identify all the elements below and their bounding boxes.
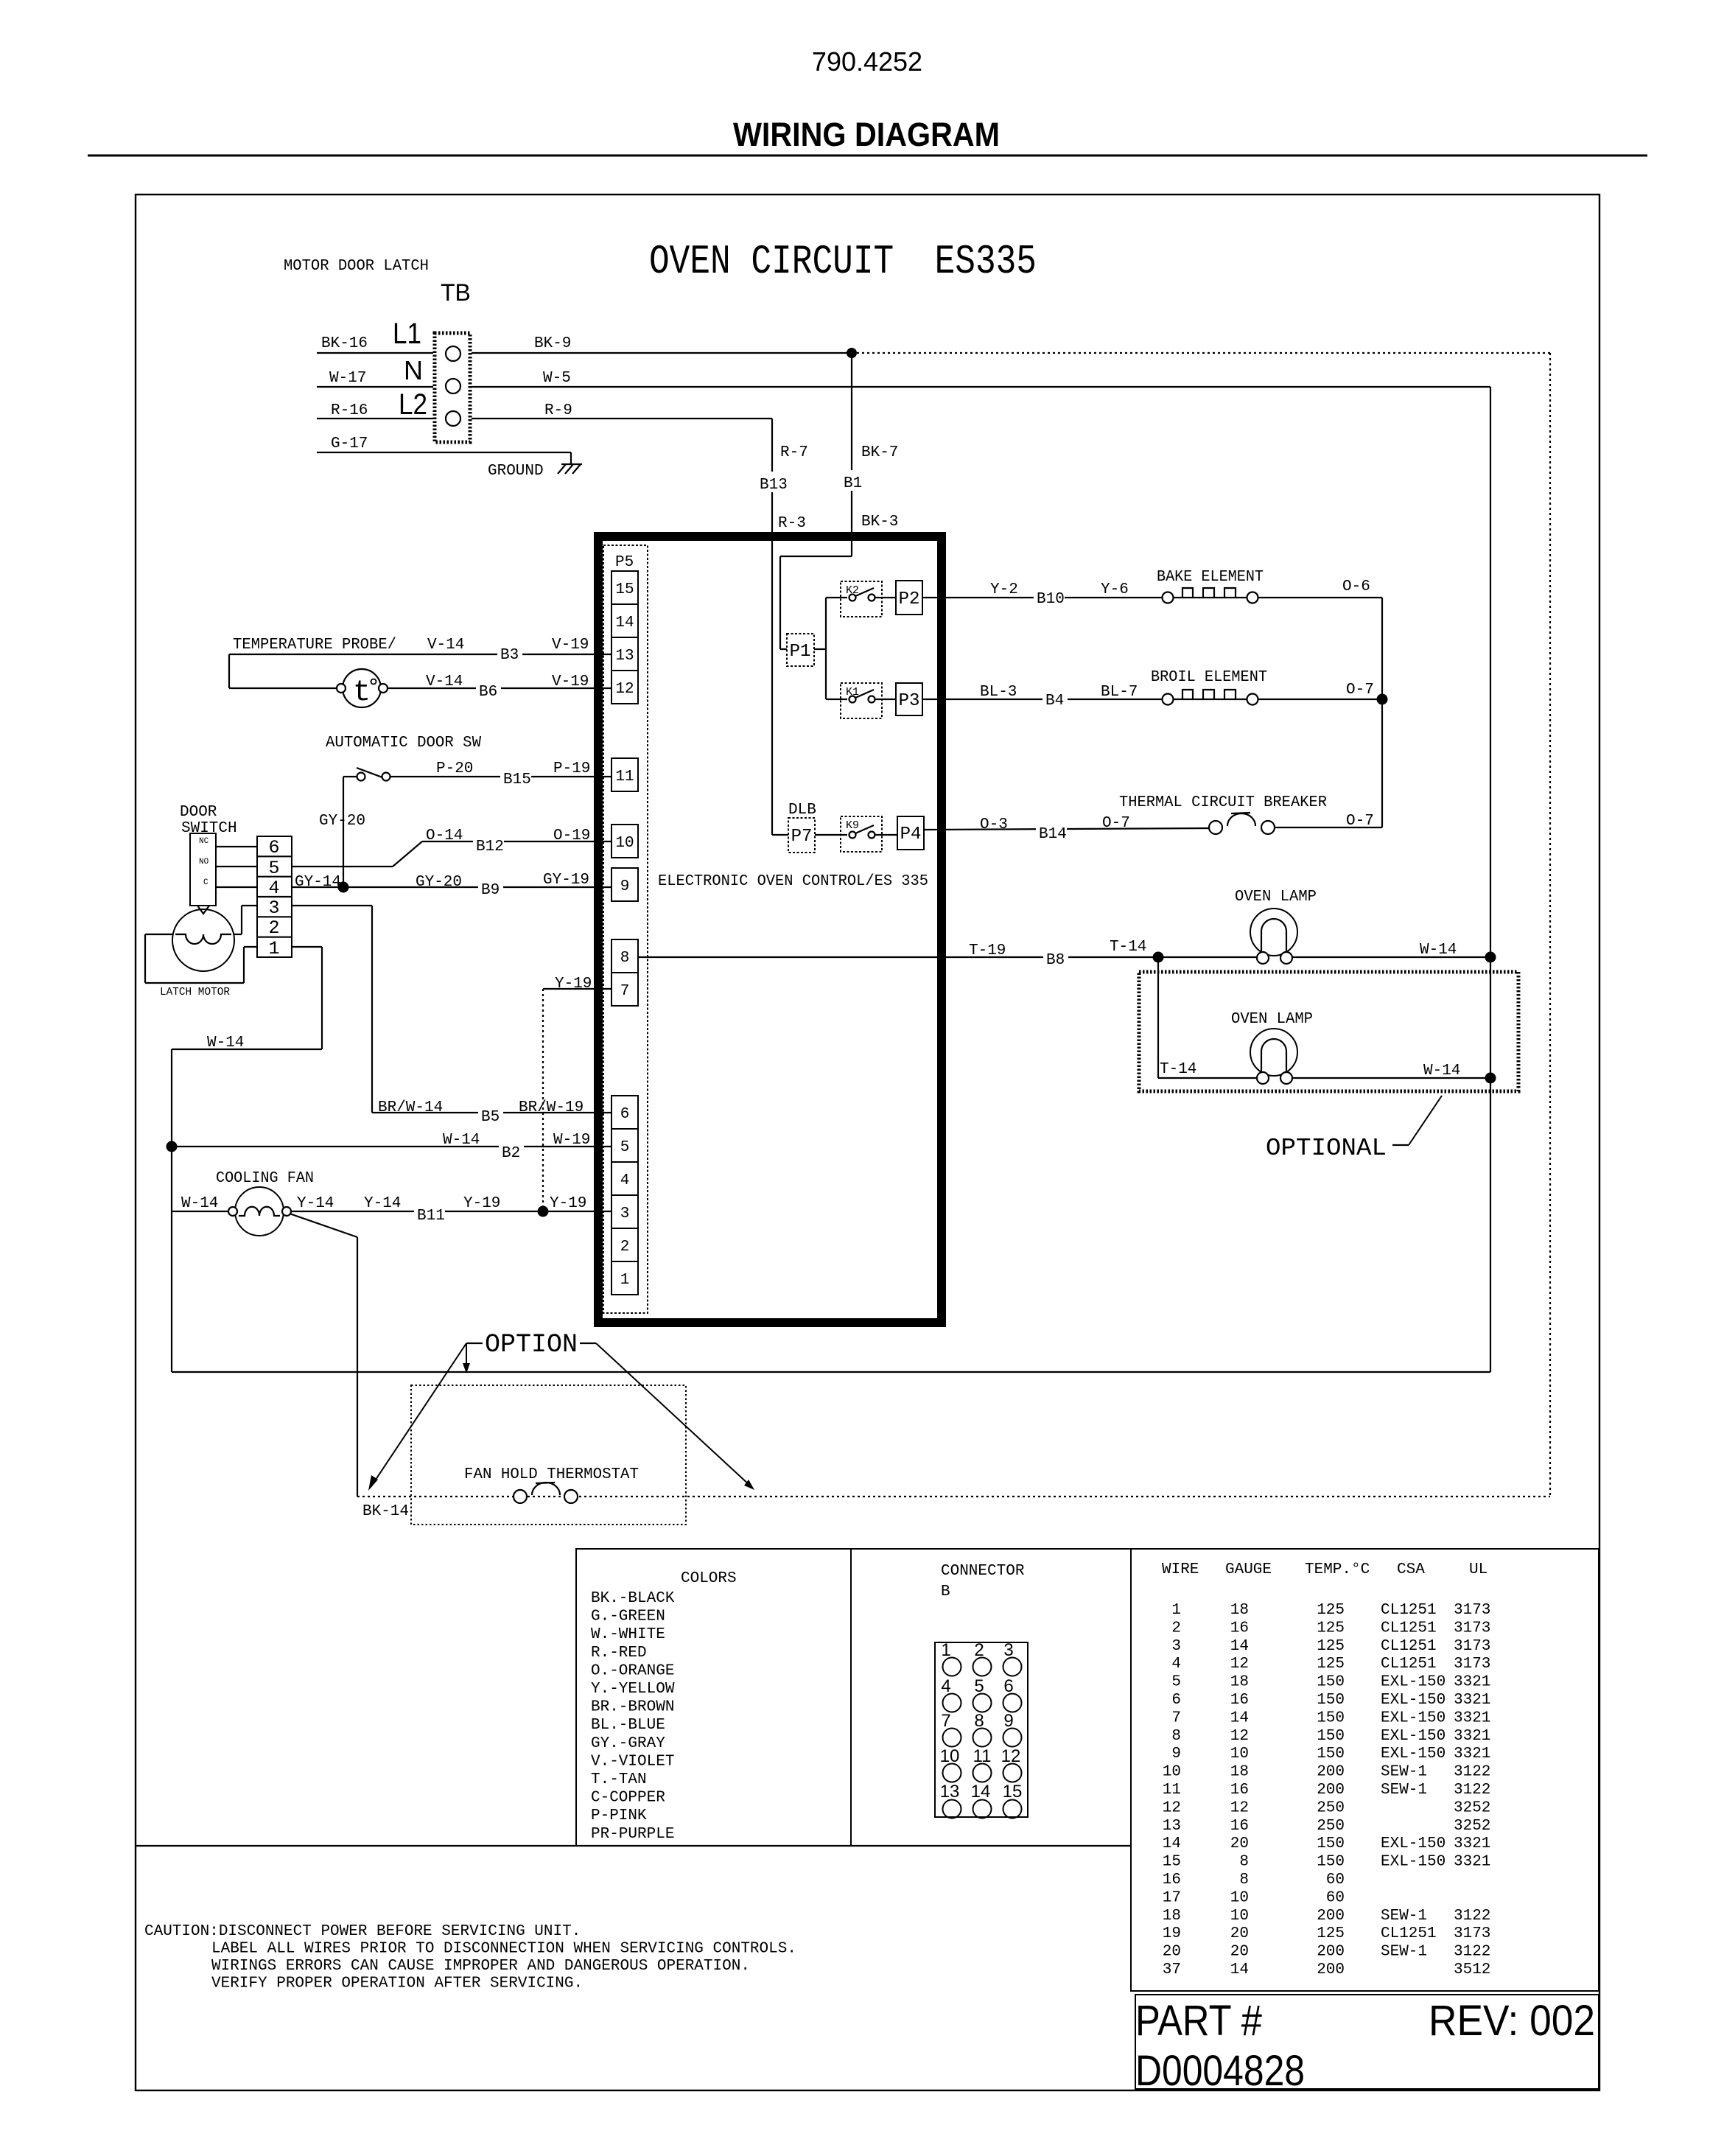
svg-text:CAUTION:DISCONNECT POWER BEFOR: CAUTION:DISCONNECT POWER BEFORE SERVICIN… (144, 1923, 581, 1940)
connector B pin block (935, 1640, 1028, 1819)
svg-text:20: 20 (1230, 1925, 1249, 1942)
svg-text:W-14: W-14 (181, 1195, 218, 1212)
svg-text:250: 250 (1317, 1818, 1345, 1835)
wire pin 8 T-19/B8/T-14 to oven lamp (638, 939, 1258, 969)
svg-text:3321: 3321 (1454, 1728, 1490, 1745)
wire BK dotted to right side (852, 353, 1550, 1497)
svg-text:V.-VIOLET: V.-VIOLET (591, 1753, 674, 1770)
svg-text:2: 2 (620, 1239, 630, 1256)
terminal block TB (435, 333, 470, 442)
svg-text:125: 125 (1317, 1925, 1345, 1942)
relay K9 (841, 816, 882, 852)
svg-text:14: 14 (1230, 1961, 1249, 1978)
label AUTOMATIC DOOR SW (326, 735, 481, 752)
svg-text:P7: P7 (791, 827, 813, 847)
svg-text:EXL-150: EXL-150 (1381, 1692, 1446, 1709)
svg-text:37: 37 (1163, 1961, 1181, 1978)
plug P7 (788, 818, 815, 853)
svg-text:CL1251: CL1251 (1381, 1602, 1437, 1619)
wire gauge table rows (1163, 1602, 1491, 1978)
svg-text:BK.-BLACK: BK.-BLACK (591, 1590, 675, 1607)
svg-text:B3: B3 (500, 647, 519, 664)
node W-14 junction (167, 1141, 178, 1152)
svg-text:Y-6: Y-6 (1101, 581, 1129, 598)
wire BK-9 (472, 335, 852, 353)
svg-text:BL.-BLUE: BL.-BLUE (591, 1717, 665, 1734)
svg-text:150: 150 (1317, 1709, 1345, 1726)
P5 pin 5 (612, 1129, 638, 1162)
svg-text:13: 13 (940, 1782, 960, 1802)
wire BK dashed through thermostat (357, 1496, 1550, 1497)
svg-text:125: 125 (1317, 1656, 1345, 1673)
svg-text:6: 6 (1171, 1692, 1181, 1709)
latch motor link triangle (197, 906, 209, 914)
plug P1 (787, 634, 814, 666)
svg-text:O-3: O-3 (980, 816, 1008, 833)
svg-text:R.-RED: R.-RED (591, 1645, 647, 1662)
svg-text:BK-7: BK-7 (861, 444, 898, 461)
svg-text:B15: B15 (503, 771, 531, 788)
svg-text:6: 6 (620, 1106, 630, 1123)
svg-text:G-17: G-17 (331, 435, 368, 452)
P5 pin 1 (612, 1261, 638, 1295)
svg-text:3321: 3321 (1454, 1835, 1490, 1852)
P5 pin 4 (612, 1162, 638, 1195)
svg-text:W-5: W-5 (543, 370, 571, 387)
svg-text:t: t (353, 676, 371, 710)
svg-text:9: 9 (620, 878, 630, 895)
ground symbol (488, 463, 582, 480)
svg-text:15: 15 (615, 581, 634, 598)
svg-text:12: 12 (1230, 1656, 1249, 1673)
P5 pin 11 (612, 758, 638, 791)
svg-text:7: 7 (1171, 1709, 1181, 1726)
node T-14 junction (1153, 952, 1164, 963)
svg-text:16: 16 (1230, 1782, 1249, 1799)
wire pin3 to BR/W-14/B5/BR/W-19 pin 6 of P5 (292, 906, 612, 1126)
svg-text:3321: 3321 (1454, 1709, 1490, 1726)
svg-text:B8: B8 (1046, 952, 1065, 969)
svg-text:4: 4 (1171, 1656, 1181, 1673)
svg-text:COLORS: COLORS (681, 1570, 737, 1587)
svg-text:P-20: P-20 (436, 760, 473, 777)
svg-text:P2: P2 (899, 589, 920, 609)
fan hold thermostat dotted box (411, 1385, 686, 1525)
svg-text:DLB: DLB (788, 802, 816, 819)
svg-text:B13: B13 (760, 477, 788, 494)
wire fan to BK-14 down (290, 1214, 409, 1520)
wire R-16 (317, 402, 433, 419)
svg-text:CL1251: CL1251 (1381, 1656, 1437, 1673)
wire K9 to P4 (875, 834, 897, 836)
svg-text:GY.-GRAY: GY.-GRAY (591, 1735, 665, 1752)
svg-text:1: 1 (1171, 1602, 1181, 1619)
svg-text:Y.-YELLOW: Y.-YELLOW (591, 1681, 675, 1698)
P5 pin 6 (612, 1096, 638, 1129)
wire pin1 W-14 down left side (172, 947, 322, 1372)
cooling fan motor (228, 1187, 291, 1236)
label N (404, 355, 423, 385)
svg-text:OPTION: OPTION (485, 1330, 578, 1359)
svg-text:K9: K9 (846, 819, 859, 832)
svg-text:THERMAL CIRCUIT BREAKER: THERMAL CIRCUIT BREAKER (1119, 794, 1327, 811)
svg-text:4: 4 (620, 1172, 630, 1189)
svg-text:L2: L2 (399, 388, 427, 421)
svg-text:W-14: W-14 (207, 1035, 244, 1051)
part number box (1135, 1995, 1599, 2095)
svg-text:20: 20 (1230, 1944, 1249, 1961)
svg-text:P3: P3 (899, 691, 920, 711)
colors legend box (576, 1549, 851, 1846)
svg-text:SEW-1: SEW-1 (1381, 1782, 1427, 1799)
svg-text:VERIFY PROPER OPERATION AFTER: VERIFY PROPER OPERATION AFTER SERVICING. (211, 1975, 583, 1992)
svg-text:200: 200 (1317, 1782, 1345, 1799)
svg-text:150: 150 (1317, 1692, 1345, 1709)
svg-text:3512: 3512 (1454, 1961, 1490, 1978)
svg-text:CL1251: CL1251 (1381, 1925, 1437, 1942)
svg-text:5: 5 (620, 1139, 630, 1156)
svg-text:Y-19: Y-19 (463, 1195, 500, 1212)
wire NO to pin 5 (216, 866, 257, 867)
svg-text:CSA: CSA (1397, 1561, 1425, 1578)
wire bake 0-6 to right bus (1258, 578, 1382, 699)
svg-text:OPTIONAL: OPTIONAL (1266, 1135, 1387, 1162)
latch motor (160, 909, 234, 998)
door switch connector block pins 6-1 (257, 836, 292, 959)
svg-text:O-7: O-7 (1346, 682, 1374, 699)
connector P5 dotted box (603, 545, 648, 1313)
svg-text:11: 11 (1163, 1782, 1181, 1799)
svg-text:3: 3 (268, 897, 279, 919)
svg-text:3173: 3173 (1454, 1638, 1490, 1655)
svg-text:3173: 3173 (1454, 1656, 1490, 1673)
wire W-14 to fan (172, 1195, 229, 1212)
wire BK-7 / BK-3 vertical into EOC to P1 (780, 353, 898, 649)
page header number (812, 46, 922, 77)
svg-text:8: 8 (1239, 1872, 1249, 1889)
oven lamp 2 (1250, 1029, 1297, 1084)
svg-text:3321: 3321 (1454, 1746, 1490, 1763)
svg-text:PART #: PART # (1135, 1997, 1262, 2045)
svg-text:150: 150 (1317, 1674, 1345, 1691)
wire pin4 GY-14/GY-20/B9/GY-19 to pin 9 (292, 872, 612, 899)
svg-text:790.4252: 790.4252 (812, 46, 922, 77)
P5 pin 8 (612, 939, 638, 973)
svg-text:FAN HOLD THERMOSTAT: FAN HOLD THERMOSTAT (464, 1466, 639, 1483)
svg-text:3: 3 (620, 1205, 630, 1222)
svg-text:O-6: O-6 (1342, 578, 1370, 595)
svg-text:10: 10 (1230, 1889, 1249, 1906)
svg-text:DOOR: DOOR (180, 804, 217, 821)
svg-text:EXL-150: EXL-150 (1381, 1854, 1446, 1871)
fan hold thermostat switch (514, 1483, 578, 1503)
svg-text:OVEN LAMP: OVEN LAMP (1231, 1011, 1313, 1028)
node BK-9 junction (847, 348, 857, 358)
svg-text:SEW-1: SEW-1 (1381, 1944, 1427, 1961)
svg-text:TEMPERATURE PROBE/: TEMPERATURE PROBE/ (233, 637, 396, 654)
svg-text:200: 200 (1317, 1961, 1345, 1978)
svg-text:O.-ORANGE: O.-ORANGE (591, 1662, 674, 1679)
svg-text:B9: B9 (481, 882, 500, 899)
svg-text:R-3: R-3 (778, 515, 806, 532)
svg-text:8: 8 (1171, 1728, 1181, 1745)
P5 pin 2 (612, 1228, 638, 1261)
svg-text:COOLING FAN: COOLING FAN (216, 1170, 314, 1187)
node W-14 junction upper (1485, 952, 1496, 963)
svg-text:125: 125 (1317, 1638, 1345, 1655)
wire K1 to P3 (875, 699, 896, 700)
svg-text:B12: B12 (476, 839, 504, 855)
caution text (144, 1923, 796, 1992)
svg-text:18: 18 (1163, 1908, 1181, 1925)
svg-text:3173: 3173 (1454, 1925, 1490, 1942)
node W-14 junction lower (1485, 1073, 1496, 1084)
wire P2 Y-2/B10/Y-6 to bake element (922, 581, 1164, 608)
svg-text:12: 12 (615, 681, 634, 698)
svg-text:W-14: W-14 (443, 1132, 480, 1149)
svg-text:Y-19: Y-19 (555, 976, 592, 993)
svg-text:20: 20 (1230, 1835, 1249, 1852)
svg-text:GROUND: GROUND (488, 463, 544, 480)
svg-text:R-16: R-16 (331, 402, 368, 419)
svg-text:12: 12 (1230, 1728, 1249, 1745)
svg-text:V-19: V-19 (552, 637, 589, 654)
svg-text:4: 4 (268, 878, 279, 899)
svg-text:10: 10 (1230, 1746, 1249, 1763)
svg-text:CL1251: CL1251 (1381, 1620, 1437, 1637)
svg-text:MOTOR DOOR LATCH: MOTOR DOOR LATCH (284, 258, 429, 275)
svg-text:3252: 3252 (1454, 1818, 1490, 1835)
svg-text:2: 2 (268, 917, 279, 939)
svg-text:3122: 3122 (1454, 1944, 1490, 1961)
door switch body (190, 833, 216, 906)
svg-text:O-7: O-7 (1102, 815, 1130, 832)
node Y-19 junction (538, 1206, 549, 1217)
label DOOR SWITCH (180, 804, 237, 837)
svg-text:B1: B1 (844, 475, 862, 492)
svg-text:13: 13 (615, 648, 634, 665)
svg-text:60: 60 (1326, 1889, 1345, 1906)
oven lamp 1 (1250, 909, 1297, 964)
svg-text:W-14: W-14 (1420, 942, 1457, 959)
label L2 (399, 388, 427, 421)
svg-text:P-PINK: P-PINK (591, 1807, 647, 1824)
svg-text:SEW-1: SEW-1 (1381, 1764, 1427, 1781)
svg-text:3321: 3321 (1454, 1854, 1490, 1871)
outer frame border (136, 195, 1599, 2090)
svg-text:G.-GREEN: G.-GREEN (591, 1609, 665, 1625)
wire broil 0-7 to junction (1258, 682, 1382, 699)
svg-text:14: 14 (1230, 1709, 1249, 1726)
svg-text:6: 6 (268, 837, 279, 858)
svg-text:Y-14: Y-14 (297, 1195, 334, 1212)
plug P2 (896, 581, 922, 615)
svg-text:18: 18 (1230, 1764, 1249, 1781)
svg-text:OVEN CIRCUIT ES335: OVEN CIRCUIT ES335 (649, 238, 1037, 285)
svg-text:20: 20 (1163, 1944, 1181, 1961)
svg-text:BK-16: BK-16 (321, 335, 368, 352)
svg-text:O-19: O-19 (553, 827, 590, 844)
svg-text:GY-14: GY-14 (295, 874, 341, 891)
svg-text:LABEL ALL WIRES PRIOR TO DISCO: LABEL ALL WIRES PRIOR TO DISCONNECTION W… (211, 1941, 796, 1958)
svg-text:D0004828: D0004828 (1135, 2047, 1305, 2095)
svg-text:ELECTRONIC OVEN CONTROL/ES 335: ELECTRONIC OVEN CONTROL/ES 335 (658, 873, 928, 890)
temperature probe symbol (337, 669, 388, 710)
svg-text:2: 2 (1171, 1620, 1181, 1637)
svg-text:Y-19: Y-19 (550, 1195, 586, 1212)
svg-text:Y-14: Y-14 (364, 1195, 401, 1212)
svg-text:BR.-BROWN: BR.-BROWN (591, 1699, 674, 1716)
svg-text:14: 14 (615, 615, 634, 631)
wire R-7 / R-3 vertical into EOC (756, 419, 808, 835)
svg-text:T-14: T-14 (1110, 939, 1146, 956)
label BAKE ELEMENT (1157, 569, 1264, 586)
svg-text:B5: B5 (481, 1109, 500, 1126)
svg-text:150: 150 (1317, 1728, 1345, 1745)
svg-text:R-7: R-7 (780, 444, 808, 461)
wire optional lamp to W vertical (1292, 1063, 1490, 1079)
svg-text:WIRING DIAGRAM: WIRING DIAGRAM (733, 116, 1000, 153)
wire latch motor left terminal loop to pin 1 (145, 934, 257, 983)
label THERMAL CIRCUIT BREAKER (1119, 794, 1327, 811)
wire C to pin 4 (216, 886, 257, 888)
svg-text:150: 150 (1317, 1746, 1345, 1763)
plug P4 (897, 816, 924, 850)
P5 pin 15 (612, 571, 638, 604)
svg-text:14: 14 (1163, 1835, 1181, 1852)
svg-text:BL-3: BL-3 (980, 684, 1017, 701)
svg-text:B4: B4 (1045, 693, 1064, 710)
node element bus junction (1377, 694, 1388, 705)
svg-text:GY-20: GY-20 (416, 874, 462, 891)
svg-text:W.-WHITE: W.-WHITE (591, 1626, 665, 1643)
svg-text:C-COPPER: C-COPPER (591, 1790, 665, 1807)
wire P-20/B15/P-19 to pin 11 (390, 760, 612, 788)
svg-text:PR-PURPLE: PR-PURPLE (591, 1826, 674, 1843)
caution box separator (136, 1845, 1131, 1847)
svg-text:BR/W-14: BR/W-14 (378, 1099, 443, 1116)
svg-text:SEW-1: SEW-1 (1381, 1908, 1427, 1925)
wire Y-19 dashed from pin 7 (543, 976, 612, 1211)
svg-text:B10: B10 (1037, 591, 1065, 608)
svg-text:15: 15 (1163, 1854, 1181, 1871)
svg-text:V-14: V-14 (426, 673, 463, 690)
svg-text:EXL-150: EXL-150 (1381, 1835, 1446, 1852)
optional lamp dashed box (1139, 972, 1518, 1091)
svg-text:B6: B6 (479, 684, 497, 701)
svg-text:7: 7 (620, 983, 630, 1000)
svg-text:W-19: W-19 (553, 1132, 590, 1149)
svg-text:Y-2: Y-2 (990, 581, 1018, 598)
svg-text:3122: 3122 (1454, 1782, 1490, 1799)
wire W vertical right side (1490, 387, 1491, 1372)
svg-text:BAKE ELEMENT: BAKE ELEMENT (1157, 569, 1264, 586)
relay K1 (841, 683, 882, 718)
svg-text:125: 125 (1317, 1602, 1345, 1619)
svg-text:BROIL ELEMENT: BROIL ELEMENT (1151, 669, 1267, 686)
svg-text:11: 11 (615, 769, 634, 785)
svg-text:V-14: V-14 (427, 637, 464, 654)
electronic oven control box (598, 536, 942, 1323)
wire G-17 to ground (317, 435, 571, 464)
wire gauge table box (1131, 1549, 1599, 1991)
svg-text:13: 13 (1163, 1818, 1181, 1835)
svg-text:1: 1 (620, 1272, 630, 1289)
svg-text:BK-3: BK-3 (861, 514, 898, 531)
svg-text:BR/W-19: BR/W-19 (519, 1099, 584, 1116)
svg-text:10: 10 (615, 835, 634, 852)
thermal circuit breaker (1209, 813, 1275, 834)
svg-text:B: B (941, 1583, 950, 1600)
svg-text:12: 12 (1230, 1799, 1249, 1816)
svg-text:14: 14 (971, 1782, 991, 1802)
svg-text:18: 18 (1230, 1602, 1249, 1619)
svg-text:125: 125 (1317, 1620, 1345, 1637)
label OVEN LAMP (1235, 889, 1317, 906)
wire oven lamp to W vertical (1292, 942, 1490, 959)
wire P7 to K9 (815, 834, 847, 836)
svg-text:O-14: O-14 (426, 827, 463, 844)
svg-text:B11: B11 (417, 1208, 445, 1225)
wire W-17 (317, 370, 433, 387)
svg-text:150: 150 (1317, 1854, 1345, 1871)
svg-text:N: N (404, 355, 423, 385)
svg-text:200: 200 (1317, 1908, 1345, 1925)
svg-text:L1: L1 (393, 318, 421, 350)
label MOTOR DOOR LATCH (284, 258, 429, 275)
svg-text:T.-TAN: T.-TAN (591, 1771, 647, 1788)
svg-text:P4: P4 (900, 825, 922, 844)
wire probe top V-14/B3/V-19 to pin 13 (229, 637, 612, 688)
wire R-9 (472, 402, 772, 419)
svg-text:3173: 3173 (1454, 1602, 1490, 1619)
svg-text:LATCH MOTOR: LATCH MOTOR (160, 986, 230, 998)
svg-text:REV: 002: REV: 002 (1429, 1997, 1595, 2045)
svg-text:TB: TB (441, 279, 471, 306)
wire long W horizontal bottom (172, 1371, 1490, 1373)
svg-text:18: 18 (1230, 1674, 1249, 1691)
svg-text:3321: 3321 (1454, 1692, 1490, 1709)
P5 pin 7 (612, 973, 638, 1006)
svg-text:3321: 3321 (1454, 1674, 1490, 1691)
svg-text:P5: P5 (615, 554, 634, 571)
label FAN HOLD THERMOSTAT (464, 1466, 639, 1483)
svg-text:15: 15 (1003, 1782, 1023, 1802)
svg-text:CL1251: CL1251 (1381, 1638, 1437, 1655)
P5 pin 3 (612, 1195, 638, 1228)
svg-text:WIRE: WIRE (1162, 1561, 1199, 1578)
connector B cell box (851, 1549, 1131, 1846)
svg-text:9: 9 (1171, 1746, 1181, 1763)
automatic door switch (343, 768, 390, 781)
label COOLING FAN (216, 1170, 314, 1187)
svg-text:EXL-150: EXL-150 (1381, 1709, 1446, 1726)
label BROIL ELEMENT (1151, 669, 1267, 686)
bake element (1163, 588, 1258, 603)
svg-text:5: 5 (1171, 1674, 1181, 1691)
wire GY-20 vertical from door switch (319, 777, 365, 887)
svg-text:BL-7: BL-7 (1101, 684, 1138, 701)
svg-text:V-19: V-19 (552, 673, 589, 690)
svg-text:B14: B14 (1039, 826, 1067, 843)
svg-text:10: 10 (1163, 1764, 1181, 1781)
node GY junction (338, 882, 349, 893)
wire fan Y-14/B11/Y-19 to pin 3 of P5 (290, 1195, 612, 1225)
svg-text:16: 16 (1163, 1872, 1181, 1889)
wire W-5 (472, 370, 1490, 387)
svg-text:P1: P1 (790, 642, 811, 662)
svg-text:16: 16 (1230, 1620, 1249, 1637)
